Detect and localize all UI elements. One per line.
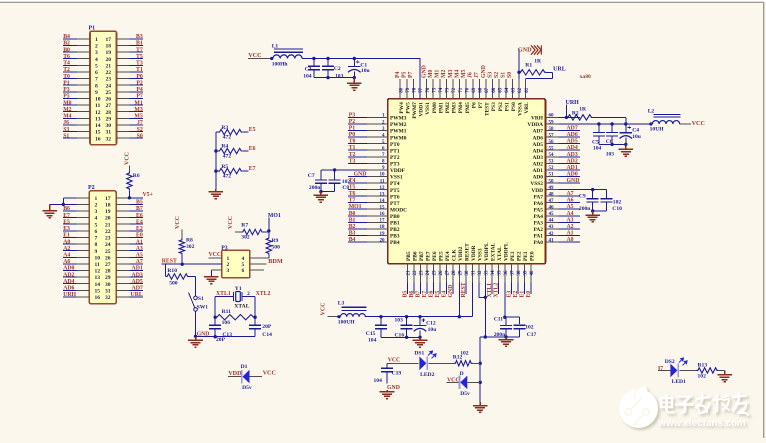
svg-text:100UH: 100UH	[338, 320, 355, 326]
svg-text:T4: T4	[63, 61, 70, 67]
svg-text:AD7: AD7	[533, 129, 544, 135]
svg-text:12: 12	[380, 186, 386, 191]
wire R3 to label	[243, 131, 249, 133]
svg-text:CLK: CLK	[451, 249, 457, 261]
svg-text:PA4: PA4	[534, 214, 544, 220]
inductor L1	[273, 55, 302, 59]
U1 pin 71 wire	[459, 79, 461, 99]
junction	[418, 315, 421, 318]
svg-text:302: 302	[186, 244, 195, 250]
svg-text:PA5: PA5	[534, 207, 544, 213]
svg-text:5: 5	[242, 262, 245, 268]
P2 pin 31 wire	[116, 289, 129, 291]
svg-text:E4: E4	[441, 291, 447, 298]
svg-text:PB5: PB5	[406, 251, 412, 261]
wire cap bottoms	[314, 77, 354, 79]
svg-text:S2: S2	[494, 72, 500, 78]
switch SW1	[194, 296, 198, 300]
svg-text:VDDR: VDDR	[471, 245, 477, 261]
U1 pin 31 wire	[471, 264, 473, 283]
wire crystal right vertical	[254, 297, 256, 326]
svg-text:16: 16	[380, 212, 386, 217]
svg-text:C3: C3	[305, 66, 312, 72]
svg-text:VSSA: VSSA	[518, 102, 524, 116]
svg-text:PT3: PT3	[390, 162, 400, 168]
svg-text:26: 26	[106, 97, 112, 103]
svg-text:A5: A5	[567, 204, 574, 210]
svg-text:B5: B5	[402, 291, 408, 298]
svg-text:J7: J7	[474, 72, 480, 78]
svg-text:P0: P0	[136, 74, 143, 80]
junction	[484, 335, 487, 338]
svg-text:VDD2: VDD2	[458, 246, 464, 261]
svg-text:A4: A4	[567, 211, 574, 217]
svg-text:LED1: LED1	[672, 379, 687, 385]
svg-text:67: 67	[485, 87, 490, 93]
P2 pin 29 wire	[116, 276, 129, 278]
svg-text:T2: T2	[63, 67, 70, 73]
wire R2 to VDDA rail	[593, 116, 626, 118]
svg-text:14: 14	[95, 123, 101, 129]
svg-text:104: 104	[368, 337, 377, 343]
svg-text:R13: R13	[698, 363, 708, 369]
svg-text:AD4: AD4	[567, 145, 578, 151]
wire P3 pin5 BDM	[250, 263, 267, 265]
svg-text:69: 69	[472, 87, 477, 93]
svg-text:GND: GND	[421, 65, 427, 78]
junction	[214, 335, 217, 338]
svg-text:100Hh: 100Hh	[272, 62, 289, 68]
svg-text:S1: S1	[501, 72, 507, 78]
P1 pin 12 wire	[63, 111, 77, 113]
U1 pin 64 wire	[505, 79, 507, 99]
U1 pin 30 wire	[465, 264, 467, 283]
ground at C4	[619, 144, 634, 156]
U1 pin 80 wire	[399, 79, 401, 99]
svg-text:50: 50	[549, 179, 555, 184]
ground at P3	[204, 275, 219, 283]
svg-text:XTLI: XTLI	[487, 283, 493, 298]
svg-text:49: 49	[549, 186, 555, 191]
svg-text:11: 11	[380, 179, 385, 184]
svg-text:A2: A2	[567, 224, 574, 230]
resistor R8	[179, 238, 184, 254]
svg-text:C8: C8	[342, 185, 349, 191]
svg-text:E5: E5	[435, 291, 441, 298]
svg-text:PM1: PM1	[438, 102, 444, 113]
wire crystal top right	[242, 296, 255, 298]
svg-text:B3: B3	[349, 231, 356, 237]
wire VDD to D1	[228, 376, 241, 378]
svg-text:S1: S1	[198, 296, 204, 302]
svg-text:23: 23	[105, 236, 111, 242]
U1 pin 61 wire	[525, 79, 527, 99]
svg-text:8: 8	[95, 242, 98, 248]
capacitor C14	[249, 324, 261, 326]
svg-text:PE1: PE1	[523, 251, 529, 261]
junction	[326, 76, 329, 79]
U1 pin 8 wire	[348, 162, 367, 164]
svg-text:103: 103	[335, 73, 344, 79]
svg-text:29: 29	[459, 270, 464, 276]
capacitor C7	[320, 170, 322, 180]
junction	[610, 122, 613, 125]
P1 pin 23 wire	[117, 78, 130, 80]
P2 pin 25 wire	[116, 250, 129, 252]
wire U1 pin33 long	[484, 283, 486, 338]
svg-text:M0: M0	[63, 100, 71, 106]
svg-text:PT0: PT0	[390, 142, 400, 148]
wire D to junction	[467, 381, 480, 383]
svg-text:AD0: AD0	[567, 171, 578, 177]
svg-text:URH: URH	[63, 292, 76, 298]
svg-text:M1: M1	[134, 100, 142, 106]
svg-text:2: 2	[247, 291, 250, 297]
junction	[503, 316, 506, 319]
svg-text:B7: B7	[136, 206, 143, 212]
resistor R3	[218, 129, 243, 134]
svg-text:7: 7	[95, 236, 98, 242]
svg-text:PW4: PW4	[399, 102, 405, 114]
svg-text:A6: A6	[63, 259, 70, 265]
svg-text:P7: P7	[478, 102, 484, 108]
svg-text:13: 13	[95, 117, 101, 123]
wire C11 C17 top rail	[505, 316, 520, 318]
junction	[214, 169, 217, 172]
junction	[484, 296, 487, 299]
svg-text:PWM7: PWM7	[412, 102, 418, 119]
svg-text:8: 8	[95, 83, 98, 89]
svg-text:62: 62	[518, 87, 523, 93]
svg-text:D: D	[460, 371, 464, 377]
svg-text:23: 23	[420, 270, 425, 276]
svg-text:A7: A7	[567, 191, 574, 197]
svg-text:70: 70	[465, 87, 470, 93]
svg-text:PT6: PT6	[390, 194, 400, 200]
connector P1	[90, 31, 117, 145]
junction	[253, 316, 256, 319]
svg-text:74: 74	[439, 87, 444, 93]
svg-text:472: 472	[223, 135, 232, 141]
junction	[591, 209, 594, 212]
U1 pin 32 wire	[478, 264, 480, 283]
U1 pin 69 wire	[472, 79, 474, 99]
svg-text:13: 13	[95, 275, 101, 281]
capacitor C16	[406, 317, 408, 326]
U1 pin 65 wire	[498, 79, 500, 99]
P1 pin 4 wire	[63, 58, 77, 60]
svg-text:PB3: PB3	[390, 234, 400, 240]
wire D1 to VCC	[250, 376, 263, 378]
P2 pin 3 wire	[63, 210, 77, 212]
P1 pin 8 wire	[63, 84, 77, 86]
svg-text:REST: REST	[162, 259, 177, 265]
wire C15 C16 C12 bottoms	[381, 336, 420, 338]
U1 pin 15 wire	[348, 208, 367, 210]
svg-text:R6: R6	[133, 173, 140, 179]
svg-text:65: 65	[498, 87, 503, 93]
svg-text:472: 472	[223, 154, 232, 160]
svg-text:79: 79	[406, 87, 411, 93]
junction	[214, 316, 217, 319]
svg-text:B2: B2	[349, 224, 356, 230]
svg-text:76: 76	[426, 87, 431, 93]
resistor R11	[215, 315, 255, 320]
U1 pin 22 wire	[413, 264, 415, 283]
svg-text:15: 15	[95, 130, 101, 136]
U1 pin 25 wire	[432, 264, 434, 283]
junction	[504, 335, 507, 338]
U1 pin 50 wire	[545, 182, 558, 184]
svg-text:VCC: VCC	[388, 357, 401, 363]
svg-text:XTAL: XTAL	[234, 303, 249, 309]
svg-text:56: 56	[549, 140, 555, 145]
U1 pin 41 wire	[545, 241, 558, 243]
resistor R9	[268, 232, 270, 237]
U1 pin 57 wire	[545, 136, 558, 138]
U1 pin 78 wire	[412, 79, 414, 99]
U1 pin 43 wire	[545, 228, 558, 230]
svg-text:M3: M3	[134, 107, 142, 113]
svg-text:A6: A6	[567, 198, 574, 204]
svg-text:E3: E3	[63, 226, 70, 232]
svg-text:A3: A3	[567, 217, 574, 223]
U1 pin 2 wire	[348, 123, 367, 125]
svg-text:B0: B0	[349, 211, 356, 217]
resistor R7	[241, 229, 263, 234]
P1 pin 7 wire	[63, 78, 77, 80]
svg-text:26: 26	[439, 270, 444, 276]
junction	[181, 263, 184, 266]
svg-text:T5: T5	[349, 185, 356, 191]
P1 pin 16 wire	[63, 137, 77, 139]
svg-text:R5: R5	[221, 164, 228, 170]
P1 pin 14 wire	[63, 124, 77, 126]
svg-text:PM4: PM4	[458, 102, 464, 113]
svg-text:9: 9	[95, 90, 98, 96]
svg-text:AD5: AD5	[567, 139, 578, 145]
svg-text:19: 19	[106, 50, 112, 56]
svg-text:20: 20	[105, 216, 111, 222]
svg-text:PA3: PA3	[534, 221, 544, 227]
wire R1 down to U1 pin61	[552, 72, 554, 78]
svg-text:P6: P6	[471, 102, 477, 108]
svg-text:GND: GND	[518, 46, 532, 53]
svg-text:102: 102	[342, 179, 351, 185]
svg-text:1R: 1R	[534, 58, 542, 64]
P2 pin 15 wire	[63, 289, 77, 291]
svg-text:44: 44	[549, 219, 555, 224]
U1 pin 77 wire	[419, 59, 421, 99]
P1 pin 30 wire	[117, 124, 130, 126]
svg-text:15: 15	[380, 206, 386, 211]
svg-text:14: 14	[95, 282, 101, 288]
U1 pin 72 wire	[452, 79, 454, 99]
svg-text:AD1: AD1	[132, 266, 143, 272]
capacitor C6	[611, 124, 613, 133]
junction	[624, 143, 627, 146]
svg-text:472: 472	[223, 174, 232, 180]
U1 pin 3 wire	[348, 130, 367, 132]
svg-text:P2: P2	[349, 119, 356, 125]
svg-text:B1: B1	[349, 217, 356, 223]
svg-text:52: 52	[549, 166, 555, 171]
svg-text:35: 35	[498, 270, 503, 276]
svg-text:E2: E2	[136, 226, 143, 232]
svg-text:18: 18	[105, 203, 111, 209]
svg-text:PWM3: PWM3	[390, 116, 407, 122]
svg-text:AD7: AD7	[567, 126, 578, 132]
svg-text:xa80: xa80	[580, 74, 591, 80]
svg-text:31: 31	[472, 270, 477, 276]
svg-text:3: 3	[227, 268, 230, 274]
P2 pin 27 wire	[116, 263, 129, 265]
svg-text:R2: R2	[572, 111, 579, 117]
svg-text:2: 2	[227, 262, 230, 268]
capacitor C13	[209, 324, 221, 326]
P2 pin 28 wire	[116, 270, 129, 272]
svg-text:C15: C15	[366, 331, 376, 337]
U1 pin 52 wire	[545, 169, 558, 171]
junction	[353, 76, 356, 79]
svg-text:36: 36	[504, 270, 509, 276]
U1 pin 40 wire	[530, 264, 532, 283]
ground at C19	[380, 390, 395, 399]
svg-text:PWM1: PWM1	[390, 129, 407, 135]
svg-text:59: 59	[549, 120, 555, 125]
P2 pin 26 wire	[116, 256, 129, 258]
svg-text:16: 16	[95, 136, 101, 142]
U1 pin 53 wire	[545, 162, 558, 164]
junction	[62, 203, 65, 206]
U1 pin 51 wire	[545, 175, 558, 177]
svg-text:60: 60	[549, 114, 555, 119]
U1 pin 79 wire	[406, 79, 408, 99]
resistor R4	[218, 148, 243, 153]
svg-text:43: 43	[549, 225, 555, 230]
svg-text:PWM0: PWM0	[390, 135, 407, 141]
svg-text:M4: M4	[63, 114, 71, 120]
P2 pin 22 wire	[116, 230, 129, 232]
svg-text:63: 63	[512, 87, 517, 93]
svg-text:XTAL: XTAL	[497, 246, 503, 261]
svg-text:J6: J6	[63, 120, 69, 126]
P1 pin 6 wire	[63, 71, 77, 73]
svg-text:45: 45	[549, 212, 555, 217]
svg-text:E6: E6	[249, 146, 256, 152]
svg-text:1: 1	[95, 37, 98, 43]
svg-text:103: 103	[606, 151, 615, 157]
P1 pin 15 wire	[63, 131, 77, 133]
svg-text:PB1: PB1	[390, 221, 400, 227]
svg-text:17: 17	[106, 37, 112, 43]
wire U1 pin49 to C9 C10	[545, 189, 558, 191]
ground at C12	[413, 337, 428, 347]
svg-text:L3: L3	[338, 300, 345, 306]
svg-text:66: 66	[492, 87, 497, 93]
junction	[517, 71, 520, 74]
ground at LED chain	[473, 402, 488, 412]
P2 pin 18 wire	[116, 203, 129, 205]
wire C11 C17 bottoms	[485, 336, 519, 338]
wire R4 to label	[243, 150, 249, 152]
svg-text:MODC: MODC	[390, 207, 407, 213]
junction	[597, 122, 600, 125]
wire VCC to P3 pin1	[209, 257, 222, 259]
page border top	[0, 1, 764, 3]
svg-text:104: 104	[593, 145, 602, 151]
svg-text:AD3: AD3	[132, 272, 143, 278]
svg-text:E7: E7	[422, 291, 428, 298]
P2 pin 4 wire	[63, 217, 77, 219]
capacitor C3	[313, 59, 315, 67]
P1 pin 24 wire	[117, 84, 130, 86]
svg-text:AD6: AD6	[567, 132, 578, 138]
svg-text:61: 61	[525, 87, 530, 93]
svg-text:32: 32	[105, 295, 111, 301]
svg-text:1R: 1R	[579, 107, 587, 113]
svg-text:M1: M1	[435, 70, 441, 78]
svg-text:B5: B5	[136, 200, 143, 206]
wire C9 C10 bottoms	[593, 210, 607, 212]
svg-text:P4: P4	[136, 87, 143, 93]
svg-text:PS3: PS3	[491, 102, 497, 111]
svg-text:80: 80	[399, 87, 404, 93]
svg-text:19: 19	[380, 232, 386, 237]
svg-text:18: 18	[106, 44, 112, 50]
ground at C1	[347, 78, 362, 90]
svg-text:URL: URL	[131, 292, 143, 298]
svg-text:T1: T1	[349, 145, 356, 151]
svg-text:PM2: PM2	[445, 102, 451, 113]
inductor L3	[341, 314, 366, 317]
svg-text:A1: A1	[567, 231, 574, 237]
svg-text:37: 37	[511, 270, 516, 276]
svg-text:E6: E6	[428, 291, 434, 298]
P2 pin 9 wire	[63, 250, 77, 252]
svg-text:11: 11	[95, 103, 100, 109]
LED DS1	[419, 357, 426, 371]
P1 pin 5 wire	[63, 64, 77, 66]
svg-text:10u: 10u	[632, 134, 641, 140]
svg-text:32: 32	[106, 136, 112, 142]
capacitor C10	[606, 190, 608, 199]
svg-text:C19: C19	[392, 370, 402, 376]
svg-text:PT7: PT7	[390, 201, 400, 207]
crystal Y1	[233, 292, 235, 301]
U1 pin 58 wire	[545, 130, 558, 132]
svg-text:102: 102	[525, 325, 534, 331]
junction	[326, 57, 329, 60]
U1 pin 70 wire	[465, 79, 467, 99]
P1 pin 29 wire	[117, 117, 130, 119]
svg-text:C14: C14	[262, 332, 272, 338]
svg-text:26: 26	[105, 255, 111, 261]
wire VCC to R7	[235, 231, 241, 233]
U1 pin 27 wire	[445, 264, 447, 283]
svg-text:VRH: VRH	[531, 116, 544, 122]
svg-text:E7: E7	[249, 166, 256, 172]
svg-text:DS2: DS2	[665, 359, 675, 365]
svg-text:VCC: VCC	[125, 152, 131, 165]
P2 pin 12 wire	[63, 270, 77, 272]
P2 pin 6 wire	[63, 230, 77, 232]
svg-text:AD5: AD5	[533, 142, 544, 148]
svg-text:200n: 200n	[309, 185, 321, 191]
svg-text:P3: P3	[349, 112, 356, 118]
svg-text:GND: GND	[481, 65, 487, 78]
svg-text:GND: GND	[387, 385, 400, 391]
